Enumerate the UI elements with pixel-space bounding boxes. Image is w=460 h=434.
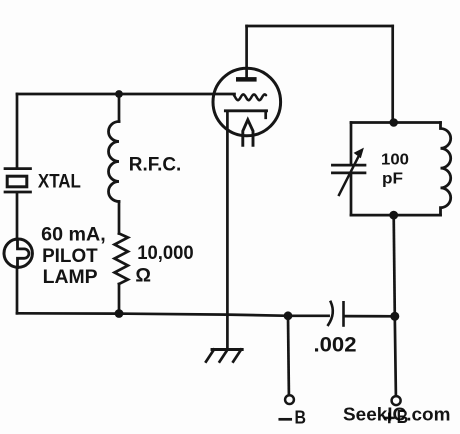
svg-text:.002: .002 xyxy=(314,334,357,357)
svg-text:R.F.C.: R.F.C. xyxy=(129,154,182,175)
svg-text:60 mA,: 60 mA, xyxy=(41,224,106,245)
svg-text:SeekIC.com: SeekIC.com xyxy=(343,403,451,424)
svg-text:PILOT: PILOT xyxy=(42,246,98,267)
svg-text:Ω: Ω xyxy=(135,265,151,287)
svg-text:B: B xyxy=(295,406,307,427)
svg-text:LAMP: LAMP xyxy=(43,267,98,288)
svg-text:100: 100 xyxy=(381,151,409,168)
svg-text:XTAL: XTAL xyxy=(38,172,81,193)
svg-text:10,000: 10,000 xyxy=(137,243,194,264)
svg-text:pF: pF xyxy=(382,170,403,187)
